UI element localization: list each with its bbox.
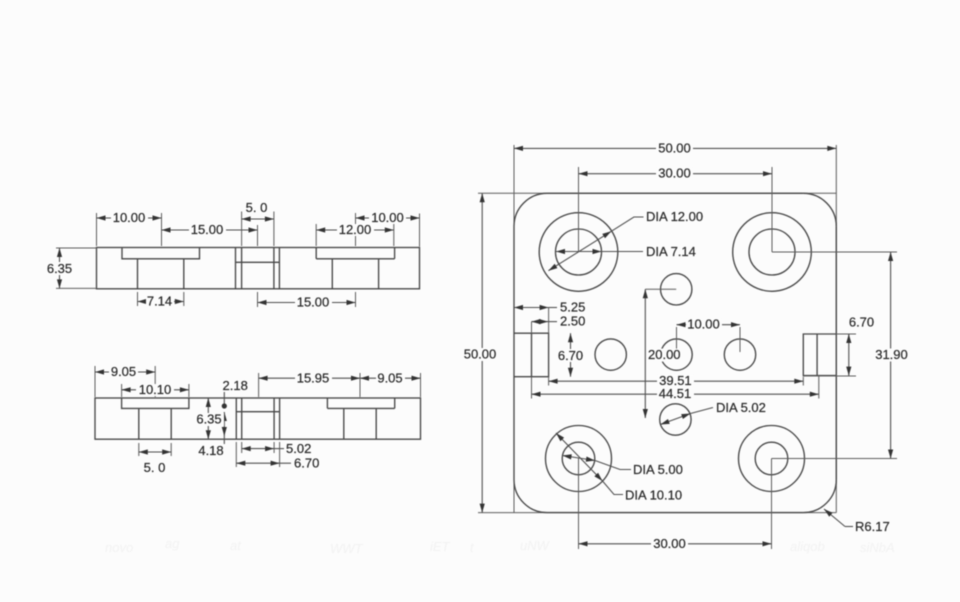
body outline — [95, 398, 421, 439]
svg-text:siNbA: siNbA — [860, 540, 895, 555]
svg-text:iET: iET — [430, 539, 451, 554]
svg-text:R6.17: R6.17 — [855, 519, 890, 534]
right deep slot — [344, 408, 376, 439]
svg-text:15.00: 15.00 — [191, 222, 224, 237]
svg-text:ag: ag — [165, 536, 180, 551]
extension lines view1 — [97, 212, 420, 247]
dim 10.00 — [677, 324, 741, 326]
bottom-right counterbore — [739, 426, 805, 492]
dim 15.00 bottom — [258, 302, 356, 304]
svg-text:DIA 5.02: DIA 5.02 — [716, 400, 766, 415]
dim 31.90 — [890, 252, 892, 459]
dim 9.05 right — [360, 377, 421, 379]
svg-text:50.00: 50.00 — [464, 347, 497, 362]
dim 15.00 — [162, 229, 258, 231]
body outline — [97, 248, 420, 289]
svg-text:50.00: 50.00 — [658, 140, 691, 155]
dim 50.00 top — [514, 147, 836, 149]
svg-text:uNW: uNW — [520, 538, 551, 553]
svg-text:30.00: 30.00 — [658, 166, 691, 181]
text masks + labels view1 — [111, 212, 148, 224]
svg-text:15.95: 15.95 — [297, 371, 330, 386]
dim 12.00 — [316, 229, 394, 231]
svg-text:10.00: 10.00 — [371, 210, 404, 225]
dim 6.70 left notch — [570, 333, 572, 377]
dim 15.95 — [259, 377, 360, 379]
dim 5.02 — [242, 448, 274, 450]
dim 50.00 left — [481, 193, 483, 512]
leader DIA 5.00 — [563, 456, 596, 461]
svg-text:12.00: 12.00 — [339, 222, 372, 237]
svg-text:DIA 12.00: DIA 12.00 — [646, 209, 703, 224]
left deep slot — [139, 408, 171, 439]
dim 10.00 left — [97, 217, 162, 219]
dim 6.35 — [207, 398, 209, 439]
dim 6.35 vertical — [59, 248, 61, 288]
corner arcs R6.17 — [514, 193, 836, 512]
svg-text:5. 0: 5. 0 — [246, 200, 268, 215]
central slot inner — [236, 248, 280, 289]
dim 20.00 — [644, 289, 646, 418]
dim 10.00 right — [356, 217, 420, 219]
bottom-left counterbore — [546, 426, 612, 492]
dim 30.00 bottom — [579, 543, 772, 545]
right shallow slot — [316, 248, 394, 259]
svg-text:6.35: 6.35 — [196, 412, 221, 427]
svg-text:t: t — [470, 540, 475, 555]
svg-text:10.00: 10.00 — [113, 210, 146, 225]
svg-text:5.02: 5.02 — [286, 441, 311, 456]
dim 9.05 left — [95, 371, 155, 373]
dim 10.10 — [122, 389, 189, 391]
dim 5.0 — [242, 218, 274, 220]
svg-text:DIA 7.14: DIA 7.14 — [646, 244, 696, 259]
4.18 arrows — [223, 412, 225, 436]
dim 6.70 — [236, 462, 279, 464]
plate edges — [514, 193, 836, 512]
top-right counterbore — [733, 213, 812, 292]
svg-text:WWT: WWT — [330, 541, 364, 556]
svg-text:44.51: 44.51 — [659, 386, 692, 401]
svg-text:aliqob: aliqob — [790, 539, 825, 554]
dim 6.70 right notch — [848, 334, 850, 376]
dim 5.25 — [514, 307, 549, 309]
svg-text:5. 0: 5. 0 — [144, 460, 166, 475]
right deep slot — [332, 259, 378, 289]
2.18 leader with dot — [223, 392, 225, 404]
dim 44.51 — [532, 393, 819, 395]
svg-text:10.10: 10.10 — [139, 382, 172, 397]
square outline + extensions — [478, 145, 836, 513]
svg-text:5.25: 5.25 — [560, 300, 585, 315]
svg-text:31.90: 31.90 — [875, 347, 908, 362]
dim 5.0 bottom — [139, 451, 171, 453]
dim 7.14 — [138, 301, 184, 303]
text masks + labels right view — [656, 142, 693, 154]
svg-text:6.70: 6.70 — [294, 456, 319, 471]
svg-text:novo: novo — [105, 540, 133, 555]
centerlines / extensions — [579, 167, 773, 549]
left shallow slot — [122, 398, 189, 408]
extension lines view2 — [95, 366, 421, 397]
leader R6.17 — [824, 509, 845, 527]
svg-text:at: at — [230, 538, 242, 553]
left shallow slot — [122, 248, 200, 259]
text masks + labels view2 — [109, 366, 138, 378]
svg-text:6.70: 6.70 — [558, 348, 583, 363]
dim 39.51 — [549, 380, 804, 382]
leader DIA 12.00 — [548, 231, 611, 270]
svg-text:DIA 10.10: DIA 10.10 — [625, 488, 682, 503]
leader DIA 10.10 — [556, 433, 603, 481]
svg-text:15.00: 15.00 — [297, 295, 330, 310]
svg-text:20.00: 20.00 — [648, 347, 681, 362]
left deep slot — [138, 259, 184, 289]
svg-text:4.18: 4.18 — [198, 443, 223, 458]
leader DIA 5.02 — [660, 414, 690, 425]
side notches — [514, 333, 549, 377]
svg-text:6.35: 6.35 — [47, 261, 72, 276]
svg-text:2.50: 2.50 — [560, 314, 585, 329]
svg-text:9.05: 9.05 — [377, 371, 402, 386]
central slot outer — [236, 248, 280, 289]
svg-text:10.00: 10.00 — [687, 317, 720, 332]
svg-text:7.14: 7.14 — [147, 294, 172, 309]
svg-text:2.18: 2.18 — [223, 378, 248, 393]
small holes — [661, 274, 692, 305]
svg-text:30.00: 30.00 — [653, 536, 686, 551]
svg-text:6.70: 6.70 — [849, 315, 874, 330]
dim 30.00 top — [579, 173, 773, 175]
right shallow slot — [327, 398, 394, 408]
top-left counterbore — [539, 213, 618, 292]
central slot — [236, 398, 279, 439]
svg-text:DIA 5.00: DIA 5.00 — [633, 462, 683, 477]
leader DIA 7.14 — [556, 251, 602, 253]
dim 2.50 — [532, 321, 549, 323]
faint watermark — [105, 536, 895, 556]
svg-text:9.05: 9.05 — [111, 364, 136, 379]
